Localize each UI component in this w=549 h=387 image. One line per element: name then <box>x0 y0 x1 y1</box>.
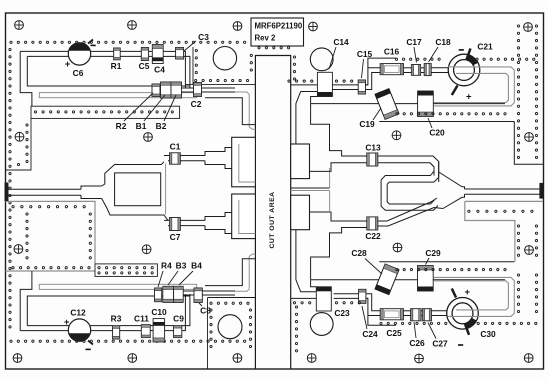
electrolytic capacitor C12 <box>68 319 90 341</box>
capacitor C4 <box>152 45 163 64</box>
svg-text:C17: C17 <box>406 37 422 47</box>
output microstrip <box>465 188 540 190</box>
bias pad upper-left <box>235 92 255 129</box>
svg-text:C24: C24 <box>362 329 378 339</box>
capacitor C14 <box>317 72 332 96</box>
bias loop bottom-right inner <box>434 281 509 310</box>
svg-text:C6: C6 <box>73 68 84 78</box>
drain pad lower <box>291 195 310 230</box>
svg-text:C10: C10 <box>151 307 167 317</box>
wire C7 step to gate pad <box>205 213 232 234</box>
svg-text:C4: C4 <box>154 65 165 75</box>
wire C22 to combiner <box>378 198 443 226</box>
combiner halfwave left <box>381 176 439 213</box>
mounting hole <box>128 21 137 30</box>
capacitor C7 <box>170 218 181 231</box>
wire C27 to C30 <box>431 315 449 317</box>
svg-text:C18: C18 <box>435 37 451 47</box>
svg-text:R2: R2 <box>116 121 127 131</box>
svg-text:C28: C28 <box>351 248 367 258</box>
mounting hole <box>15 21 24 30</box>
wire C10 to C9 <box>165 330 174 332</box>
wire R1 to C5 <box>120 50 141 52</box>
bias loop top-right outer <box>434 67 514 106</box>
input microstrip <box>8 188 81 190</box>
electrolytic capacitor C30 <box>447 298 479 330</box>
resistor R3 <box>113 326 120 339</box>
capacitor C22 <box>367 217 378 230</box>
svg-text:C12: C12 <box>70 308 86 318</box>
mounting hole <box>307 354 316 363</box>
svg-text:B2: B2 <box>156 121 167 131</box>
capacitor C13 <box>367 153 378 166</box>
electrolytic capacitor C21 <box>448 54 480 86</box>
svg-text:Rev 2: Rev 2 <box>255 34 276 43</box>
wire C11 to C10 <box>150 330 153 332</box>
svg-text:C16: C16 <box>384 47 400 57</box>
mounting hole <box>128 354 137 363</box>
bead B2 <box>171 82 182 98</box>
resistor R2 <box>152 84 160 97</box>
wire C5 to C4 <box>149 50 153 52</box>
svg-text:+: + <box>65 59 71 70</box>
hole top-center <box>213 47 236 70</box>
wire C23 to C24 <box>334 293 359 295</box>
svg-text:C26: C26 <box>409 338 425 348</box>
wire C18 to C21 <box>431 67 449 69</box>
svg-text:C11: C11 <box>134 314 149 324</box>
mounting hole <box>13 354 22 363</box>
capacitor C9 <box>174 326 182 338</box>
via row bottom-left <box>10 340 12 342</box>
via column left edge <box>9 48 11 50</box>
mounting hole <box>524 354 533 363</box>
gate pad upper <box>232 137 256 187</box>
wire C13 to combiner <box>378 156 439 182</box>
cutout area boundary <box>255 56 290 369</box>
via row strip bottom-right <box>293 302 295 304</box>
svg-text:+: + <box>466 92 472 103</box>
via row bias bus top <box>396 113 398 115</box>
output region boundary lower <box>465 201 543 261</box>
wire C6 to R1 <box>89 50 114 52</box>
bias trace top-left inner <box>27 56 190 86</box>
drain wire staircase upper <box>311 104 367 156</box>
svg-text:+: + <box>465 287 471 298</box>
capacitor C8 <box>194 288 202 302</box>
via row above cutout <box>258 47 260 49</box>
slot bar bottom-left <box>39 284 196 289</box>
svg-text:C25: C25 <box>386 328 402 338</box>
svg-text:R1: R1 <box>111 61 122 71</box>
svg-text:CUT OUT AREA: CUT OUT AREA <box>269 191 276 248</box>
combiner meander <box>381 163 438 210</box>
bias pad lower-left <box>235 254 255 291</box>
capacitor C5 <box>141 48 148 61</box>
input matching ring hole <box>115 173 161 206</box>
bias loop top-right inner <box>434 73 509 102</box>
input matching ring right edge <box>165 164 167 215</box>
wire B2 to C2 to bias pad <box>182 87 236 89</box>
via row top-right upper <box>395 58 397 60</box>
capacitor C24 <box>359 289 366 303</box>
bias trace bottom-left outer <box>20 271 72 331</box>
capacitor C27 <box>422 309 431 321</box>
wire C1 step to gate pad <box>205 148 232 169</box>
mounting hole <box>144 133 153 142</box>
bead B1 <box>161 82 172 98</box>
svg-text:R4: R4 <box>161 261 172 271</box>
mounting hole <box>392 131 401 140</box>
svg-text:C1: C1 <box>170 142 181 152</box>
bias trace top-left outer <box>20 51 72 106</box>
mounting hole <box>233 22 242 31</box>
inductor C25 <box>380 309 403 320</box>
combiner meander outer <box>389 156 439 182</box>
via row top-left <box>10 41 12 43</box>
bias trace bottom-left inner <box>27 296 190 326</box>
input step <box>81 186 102 199</box>
resistor R1 <box>114 48 121 60</box>
wire to C1 <box>164 155 205 157</box>
wire C9 corner up <box>182 294 190 331</box>
bias bus strip bottom-right <box>311 279 505 281</box>
capacitor C29 <box>418 266 434 292</box>
wire C14 to C15 <box>332 89 358 91</box>
svg-text:C19: C19 <box>359 119 375 129</box>
mounting hole <box>14 245 23 254</box>
svg-text:C29: C29 <box>425 248 441 258</box>
svg-text:C9: C9 <box>173 314 184 324</box>
svg-text:C3: C3 <box>198 32 209 42</box>
mounting hole <box>15 132 24 141</box>
mounting hole <box>415 354 424 363</box>
svg-text:B3: B3 <box>176 261 187 271</box>
via row bias bus bottom <box>396 269 398 271</box>
wire C4 to C3 <box>163 50 175 52</box>
gate pad lower <box>232 194 256 239</box>
via row bottom-right lower <box>380 322 382 324</box>
ground region top-center-left <box>185 47 255 85</box>
drain wire staircase lower <box>311 228 367 280</box>
inductor C16 <box>380 64 403 75</box>
capacitor C2 <box>194 83 202 97</box>
capacitor C1 <box>170 153 181 164</box>
ground bar lower-left <box>95 264 157 277</box>
ground boundary top-right <box>291 58 396 85</box>
svg-text:C7: C7 <box>170 232 181 242</box>
capacitor C11 <box>141 325 150 338</box>
svg-text:C15: C15 <box>357 49 373 59</box>
output taper <box>439 172 465 209</box>
svg-text:C13: C13 <box>365 143 381 153</box>
svg-text:C30: C30 <box>480 329 496 339</box>
wire bias pad upper-right <box>296 92 318 145</box>
capacitor C3 <box>176 48 184 60</box>
resistor R4 <box>155 288 162 302</box>
svg-text:B4: B4 <box>191 261 202 271</box>
RF output connector pad <box>540 183 543 198</box>
wire to C7 <box>164 219 205 221</box>
mounting hole <box>309 22 318 31</box>
capacitor C19 <box>375 89 399 120</box>
wire C15 junction up to C16 <box>366 68 381 90</box>
svg-text:MRF6P21190: MRF6P21190 <box>255 22 303 31</box>
via row top-right strip <box>288 80 290 82</box>
svg-text:C23: C23 <box>334 308 350 318</box>
wire C25 to C26 <box>403 315 410 317</box>
mounting hole <box>233 354 242 363</box>
wire C24 junction down to C25 <box>366 294 380 316</box>
bead B4 <box>174 286 184 302</box>
svg-text:C21: C21 <box>477 42 493 52</box>
capacitor C15 <box>358 80 365 94</box>
svg-text:C14: C14 <box>333 37 349 47</box>
title block MRF6P21190 Rev 2 <box>251 18 304 46</box>
capacitor C26 <box>411 309 421 321</box>
slot bar top-left <box>39 93 196 98</box>
ground band upper-left <box>31 106 180 118</box>
wire B4 to C8 to bias pad <box>183 290 235 292</box>
svg-text:C5: C5 <box>139 61 150 71</box>
mounting hole <box>524 23 533 32</box>
capacitor C28 <box>375 264 399 295</box>
ground region lower-left <box>6 201 96 271</box>
svg-text:C2: C2 <box>191 99 202 109</box>
bias bus strip top-right <box>311 103 505 105</box>
svg-text:C20: C20 <box>429 128 445 138</box>
hole C23 body <box>310 313 333 336</box>
bead B3 <box>163 286 174 302</box>
hole C14 body <box>310 48 333 71</box>
wire bias pad lower-right <box>296 230 316 292</box>
ground region bottom-center-left <box>208 298 256 369</box>
capacitor C20 <box>418 91 434 117</box>
capacitor C10 <box>153 319 165 342</box>
ground region top-right corner <box>514 122 543 165</box>
ground boundary bottom-right <box>291 298 396 325</box>
mounting hole <box>142 245 151 254</box>
hole bottom-center-left <box>218 315 242 339</box>
wire R3 to C11 <box>120 330 142 332</box>
svg-text:C8: C8 <box>200 306 211 316</box>
svg-text:R3: R3 <box>111 314 122 324</box>
drain pad upper <box>291 144 310 179</box>
bias loop bottom-right outer <box>434 277 514 316</box>
svg-text:C27: C27 <box>432 339 448 349</box>
capacitor C17 <box>411 65 420 76</box>
drain center tie <box>291 187 330 189</box>
input matching ring outer <box>102 162 168 221</box>
capacitor C18 <box>424 64 431 76</box>
ground strip left <box>6 118 32 170</box>
mounting hole <box>525 133 534 142</box>
mounting hole <box>393 243 402 252</box>
wire C17 to C18 <box>421 67 425 69</box>
svg-text:+: + <box>64 317 70 328</box>
electrolytic capacitor C6 <box>68 43 90 65</box>
wire C12 to R3 <box>89 330 113 332</box>
RF input connector pad <box>5 183 8 201</box>
wire C26 to C27 <box>421 315 422 317</box>
wire C3 corner down <box>184 51 190 88</box>
mounting hole <box>525 246 534 255</box>
svg-text:B1: B1 <box>136 121 147 131</box>
capacitor C23 <box>316 287 331 311</box>
svg-text:C22: C22 <box>365 231 381 241</box>
wire C16 to C17 <box>403 67 411 69</box>
